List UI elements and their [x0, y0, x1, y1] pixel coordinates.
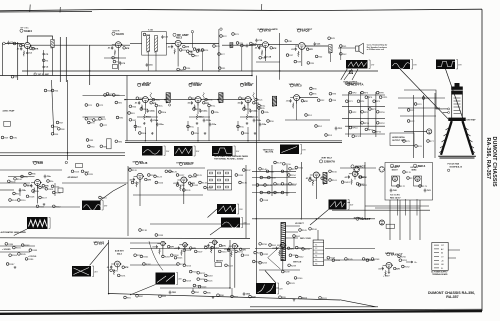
wire w if chain	[148, 99, 168, 101]
terminal B+2	[220, 28, 222, 30]
resistor R50d	[144, 114, 152, 120]
resistor R50a	[136, 97, 145, 100]
box Z6 height	[215, 263, 222, 267]
svg-text:R215: R215	[186, 265, 192, 267]
svg-text:R113: R113	[74, 171, 80, 173]
svg-text:DAMPER: DAMPER	[385, 252, 395, 255]
wire w mid v ext2	[255, 135, 257, 218]
resistor R16	[186, 50, 194, 53]
box ladder	[208, 170, 232, 190]
resistor R80	[113, 94, 121, 97]
svg-text:Y6: Y6	[315, 263, 317, 265]
wire w b h4	[130, 242, 160, 244]
wire w t7 wires3	[286, 237, 299, 239]
svg-text:4.5MC TRAP: 4.5MC TRAP	[3, 110, 16, 113]
waveform inset W12	[329, 200, 354, 210]
resistor RI1d	[191, 132, 199, 135]
capacitor V5-Ca	[291, 47, 297, 51]
resistor V10-Ra	[188, 182, 195, 185]
svg-text:6BL7GTA: 6BL7GTA	[265, 151, 274, 154]
resistor R134	[204, 186, 213, 189]
resistor V8-Ra	[42, 184, 49, 187]
wire V2-stub	[112, 45, 118, 51]
svg-text:R184: R184	[12, 255, 18, 257]
resistor R129	[194, 174, 203, 177]
svg-text:R219: R219	[186, 280, 192, 282]
svg-text:R252: R252	[405, 267, 411, 269]
resistor R86	[115, 140, 123, 143]
svg-text:R110: R110	[21, 200, 27, 202]
resistor R120	[129, 169, 138, 172]
waveform inset W13	[72, 266, 98, 277]
box Z3	[107, 139, 112, 149]
wire w v22 drop2	[405, 199, 407, 216]
svg-text:VERT MULT: VERT MULT	[321, 157, 333, 159]
resistor VIF3-Ra	[253, 102, 260, 105]
svg-text:47K: 47K	[125, 266, 129, 269]
wire w yk v3	[434, 93, 436, 158]
wire w v1 drop	[26, 49, 28, 76]
resistor R122	[148, 174, 157, 177]
label callout V15	[94, 242, 104, 246]
svg-text:R123: R123	[157, 176, 163, 178]
wire w yk h3	[400, 115, 436, 117]
resistor R6	[42, 59, 49, 62]
label callout V3	[173, 33, 189, 37]
junction jd0	[67, 152, 68, 153]
resistor R78	[104, 94, 112, 97]
wire w if low1	[137, 116, 158, 118]
junction V17-J	[187, 244, 188, 245]
label callout V2	[112, 31, 124, 36]
resistor R82	[116, 116, 124, 119]
ground gb1	[212, 296, 215, 299]
ground g bl	[14, 266, 17, 269]
svg-text:47K: 47K	[273, 47, 277, 50]
terminal ANT	[3, 42, 6, 45]
capacitor V6-Ca	[286, 99, 292, 103]
ladder resistor LR5	[225, 179, 228, 181]
capacitor V11-Ca	[306, 176, 312, 180]
resistor V4-Ra	[270, 47, 277, 50]
resistor R65	[51, 125, 59, 128]
resistor R8d	[32, 190, 40, 193]
wire w if low3	[240, 116, 258, 118]
capacitor CB1	[169, 291, 177, 295]
svg-text:AGE KEY: AGE KEY	[115, 250, 125, 253]
resistor RB4	[192, 291, 200, 294]
wire w w8 pointer	[100, 191, 113, 201]
wire w bl h1	[0, 245, 35, 247]
wire w t1 in	[130, 42, 142, 44]
tube V16	[161, 241, 165, 245]
tube V22	[379, 220, 384, 225]
wire w w12 bracket	[348, 202, 351, 204]
wire w rail stub2	[231, 288, 233, 296]
resistor RI0c	[134, 125, 141, 128]
junction jd16	[217, 99, 218, 100]
resistor R217	[197, 272, 206, 275]
resistor RP14	[349, 126, 358, 129]
svg-text:R164: R164	[362, 177, 368, 179]
wire w sync link2	[0, 206, 80, 208]
wire w hv v4	[419, 200, 421, 240]
label callout V9	[135, 161, 147, 165]
CRT base tip	[455, 83, 460, 87]
wire w mix rail	[88, 44, 130, 46]
tube V2	[115, 42, 121, 48]
resistor V1-Ra	[32, 47, 39, 50]
wire w vif1 rail	[197, 127, 199, 141]
resistor RI1c	[187, 125, 194, 128]
resistor R70	[10, 136, 18, 139]
junction V1-J	[30, 45, 31, 46]
resistor R115	[85, 173, 94, 176]
wire w ps p2	[352, 69, 358, 80]
resistor R81	[115, 101, 123, 104]
resistor R234	[259, 261, 268, 264]
CRT ion trap band	[448, 118, 465, 121]
resistor R204	[170, 254, 179, 257]
svg-text:RI1c: RI1c	[190, 127, 194, 129]
svg-text:R224: R224	[228, 265, 234, 267]
capacitor C1	[7, 41, 14, 45]
wire w ps down1	[359, 92, 361, 137]
junction V16-J	[165, 243, 166, 244]
resistor R145	[264, 184, 273, 187]
wire w t1 drops	[147, 51, 149, 71]
resistor V11-Ra	[321, 177, 328, 180]
svg-text:R102: R102	[27, 185, 33, 187]
resistor RP3	[361, 91, 369, 94]
capacitor C6	[42, 65, 49, 69]
resistor R215	[183, 264, 192, 267]
wire w b v1	[162, 246, 164, 256]
resistor R172	[397, 185, 406, 188]
wire w t7 wires2	[286, 231, 299, 233]
svg-text:TERMINAL BOARD: TERMINAL BOARD	[432, 273, 448, 276]
CRT pin contacts	[448, 108, 450, 114]
terminal TP1	[34, 73, 36, 75]
wire w stack drop	[43, 70, 45, 76]
resistor RY2	[407, 120, 415, 123]
box HV sub box1	[392, 176, 400, 186]
resistor R52a	[239, 97, 248, 100]
resistor V3-Ra	[183, 45, 190, 48]
svg-text:R185: R185	[21, 254, 27, 256]
ladder resistor LR4	[217, 179, 220, 181]
resistor RD3	[325, 134, 333, 137]
svg-text:RP11: RP11	[382, 97, 388, 99]
svg-text:HEIGHT: HEIGHT	[216, 261, 224, 263]
resistor R223	[198, 285, 207, 288]
resistor V4-Rb	[261, 50, 263, 56]
tube V18	[212, 240, 216, 244]
capacitor CI1a	[209, 123, 217, 127]
svg-text:R120: R120	[132, 170, 138, 172]
resistor R250	[398, 255, 407, 258]
resistor R23	[232, 33, 240, 36]
wire w hv h206	[365, 205, 429, 207]
svg-text:6000/PA/A-10: 6000/PA/A-10	[450, 165, 463, 168]
wire w v4 h2	[256, 61, 280, 63]
resistor R241	[287, 282, 296, 285]
capacitor CD1	[335, 127, 343, 131]
resistor R8a	[21, 175, 29, 178]
resistor RP5	[361, 111, 369, 114]
resistor R166	[309, 228, 318, 231]
border bottom	[0, 311, 482, 314]
resistor R143	[268, 176, 277, 179]
resistor V2-Rb	[114, 50, 116, 56]
svg-text:R52c: R52c	[258, 100, 263, 102]
svg-text:RHV2: RHV2	[361, 185, 367, 187]
svg-text:R166: R166	[312, 229, 318, 231]
resistor R76	[99, 118, 107, 121]
resistor R150	[283, 163, 292, 166]
wire w v2 h	[104, 57, 126, 59]
svg-text:R207: R207	[198, 251, 204, 253]
resistor RP17	[352, 135, 361, 138]
resistor R149	[274, 161, 283, 164]
resistor RB10	[299, 296, 308, 299]
resistor R27	[218, 53, 226, 56]
wire w hv h	[375, 207, 420, 209]
svg-text:R203: R203	[165, 256, 171, 258]
resistor RY4	[422, 97, 430, 100]
junction V19-J	[237, 245, 238, 246]
capacitor C16	[146, 63, 154, 67]
svg-text:R232: R232	[263, 254, 269, 256]
label callout V14	[413, 164, 425, 168]
capacitor C52a	[249, 109, 258, 113]
junction jd7	[251, 75, 252, 76]
svg-text:R100: R100	[17, 179, 23, 181]
junction jd12	[229, 287, 230, 288]
resistor R71	[85, 104, 93, 107]
wire w r3 v1	[300, 162, 302, 218]
resistor R186	[25, 258, 34, 261]
capacitor C21	[314, 42, 322, 46]
svg-text:R115: R115	[88, 174, 94, 176]
transformer T6	[323, 173, 327, 185]
waveform inset W15	[256, 283, 283, 294]
resistor R165	[299, 229, 308, 232]
capacitor V19-Ca	[224, 248, 230, 252]
wire w w11 pointer	[210, 227, 221, 235]
speaker SP1	[356, 43, 364, 54]
svg-text:RP10: RP10	[380, 112, 386, 114]
tube V13 hv rect	[392, 176, 397, 181]
wire w t7 wires	[286, 225, 301, 227]
resistor RI2c	[237, 125, 244, 128]
resistor R51d	[196, 114, 204, 120]
svg-text:R149: R149	[277, 163, 283, 165]
wire w vif2 down	[247, 103, 249, 114]
wire w g h2	[252, 177, 296, 179]
waveform inset W3	[436, 60, 462, 70]
terminal X1	[350, 71, 353, 74]
wire w b h3	[259, 269, 300, 271]
resistor V8-Rb	[33, 188, 35, 194]
box HOR OUT label box	[390, 133, 414, 146]
wire w yoke left	[400, 69, 449, 119]
capacitor C8a	[44, 175, 52, 179]
resistor R67	[56, 121, 64, 124]
junction jd11	[108, 293, 109, 294]
wire w ps v2	[375, 92, 377, 137]
resistor V11-Rb	[312, 180, 314, 186]
svg-text:RF OSC: RF OSC	[21, 28, 30, 30]
wire ladder h2	[208, 182, 232, 184]
wire w8 b	[37, 186, 39, 204]
wire w damper drop	[388, 268, 390, 271]
wire w hout v	[293, 238, 295, 249]
coil T2	[329, 45, 332, 54]
svg-text:RB10: RB10	[302, 298, 308, 300]
svg-text:RB11: RB11	[322, 298, 328, 300]
svg-text:R50c: R50c	[155, 100, 160, 102]
resistor R152	[295, 166, 304, 169]
resistor R8	[11, 75, 18, 78]
terminal focus	[447, 169, 449, 171]
wire w bot v2	[255, 218, 257, 283]
ground gb2	[293, 299, 296, 302]
resistor R219	[183, 279, 192, 282]
CRT funnel left leg	[441, 121, 452, 155]
svg-text:47K: 47K	[309, 48, 313, 51]
resistor R100	[14, 178, 23, 181]
resistor R51c	[205, 98, 213, 101]
svg-text:C52a: C52a	[252, 110, 258, 112]
wire w r41 drop	[340, 48, 342, 60]
wire w t2 drop	[329, 53, 331, 62]
resistor R148	[260, 199, 269, 202]
resistor R68	[58, 128, 66, 131]
coil peaking L10	[150, 93, 152, 99]
label callout V11	[319, 160, 336, 164]
capacitor V18-Ca	[204, 244, 210, 248]
resistor R92	[317, 99, 325, 102]
resistor R64	[51, 89, 59, 92]
wire w v22 drop3	[416, 199, 418, 216]
junction V6-J	[299, 97, 300, 98]
svg-text:R242: R242	[299, 256, 305, 258]
resistor RD2	[315, 125, 323, 128]
resistor V10-Rb	[180, 185, 182, 191]
wire w diag r4	[265, 271, 276, 284]
resistor R213	[241, 254, 250, 257]
resistor VIF3-Rb	[244, 105, 246, 111]
svg-text:SYNC SEP: SYNC SEP	[133, 162, 144, 164]
junction V2-J	[121, 44, 122, 45]
capacitor VIF3-Ca	[237, 101, 243, 105]
CRT neck grids	[454, 98, 461, 114]
ground gI2	[254, 132, 257, 135]
svg-text:AP BRIGHT: AP BRIGHT	[68, 176, 79, 179]
wire w ant	[5, 42, 24, 44]
resistor R25	[241, 44, 249, 47]
wire w yk h2	[398, 107, 440, 109]
svg-text:R183: R183	[32, 250, 38, 252]
resistor R52d	[246, 114, 254, 120]
svg-text:R218: R218	[208, 275, 214, 277]
svg-text:R132: R132	[193, 185, 199, 187]
resistor R11	[113, 60, 121, 63]
svg-text:R190: R190	[113, 270, 119, 272]
resistor V19-Ra	[239, 248, 246, 251]
wire w mc v1	[324, 259, 375, 261]
wire w v22 drop	[396, 199, 398, 216]
svg-text:R133: R133	[202, 183, 208, 185]
coil peaking L12	[253, 93, 255, 99]
resistor R125	[165, 170, 174, 173]
wire w l2 top	[27, 36, 52, 42]
svg-text:R250: R250	[401, 256, 407, 258]
svg-text:NOISE INV: NOISE INV	[33, 162, 44, 164]
wire w ps h4	[345, 125, 385, 127]
svg-text:RP14: RP14	[352, 128, 358, 130]
svg-text:R109: R109	[12, 200, 18, 202]
wire w r3 h7	[340, 167, 376, 169]
junction jd14	[316, 218, 317, 219]
svg-text:R170: R170	[406, 172, 412, 174]
wire w if low2	[189, 116, 210, 118]
svg-text:H.V. 16 KV: H.V. 16 KV	[390, 195, 400, 197]
resistor RHV2	[358, 184, 367, 187]
wire w stack	[43, 50, 45, 70]
arrow B+	[406, 261, 413, 263]
wire w t1 drops2	[155, 51, 157, 71]
CRT neck	[452, 95, 463, 119]
resistor R124	[155, 181, 164, 184]
svg-text:T-101: T-101	[148, 30, 154, 32]
CRT funnel hatch left	[439, 127, 450, 153]
svg-text:R124: R124	[158, 183, 164, 185]
waveform inset W14	[156, 273, 183, 285]
resistor V20-Ra	[287, 247, 294, 250]
resistor R1	[13, 42, 20, 45]
capacitor VIF1-Ca	[135, 101, 141, 105]
resistor R85	[100, 145, 108, 148]
resistor R171	[407, 177, 416, 180]
svg-text:R151: R151	[292, 169, 298, 171]
resistor R244	[332, 259, 341, 262]
resistor R19	[192, 54, 200, 57]
junction V18-J	[217, 242, 218, 243]
wire w vif0 down	[144, 103, 146, 114]
resistor R26	[250, 42, 258, 45]
wire w yk h4	[404, 130, 427, 132]
resistor R96	[267, 120, 275, 123]
resistor R181	[13, 246, 22, 249]
resistor RH2	[293, 235, 301, 238]
junction V5-J	[305, 45, 306, 46]
wire V17-stub	[179, 245, 185, 250]
wire w l2 drop	[52, 48, 54, 76]
svg-text:+ 135 V: + 135 V	[383, 276, 390, 278]
resistor R91	[310, 92, 318, 95]
junction VIF2-J	[201, 99, 202, 100]
resistor V21-Ra	[393, 267, 400, 270]
label callout V8	[33, 161, 43, 165]
tube socket SK1	[379, 167, 385, 173]
wire w yoke right	[446, 69, 464, 119]
curve wire vert	[149, 241, 163, 270]
resistor R222	[193, 284, 202, 287]
svg-text:RI0c: RI0c	[137, 127, 141, 129]
capacitor C19	[255, 39, 263, 43]
